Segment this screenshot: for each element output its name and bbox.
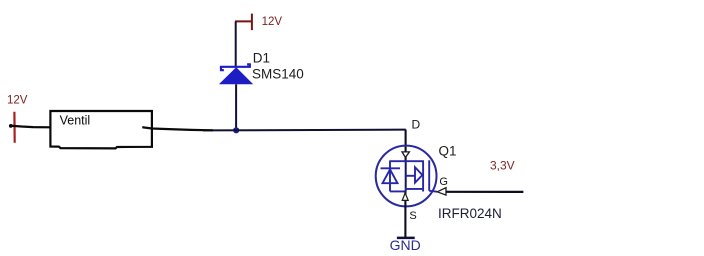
wire left supply to Ventil box (hand-drawn) (10, 126, 51, 128)
junction node dot (233, 127, 239, 133)
wire Ventil box to junction (hand-drawn) (143, 126, 213, 130)
power supply +12V (top) (235, 14, 253, 31)
ground symbol bar (397, 237, 415, 240)
svg-text:G: G (439, 176, 448, 188)
transistor Q1 internal vertical (drain-bulk-source spine) (405, 161, 407, 191)
pin arrow source (open, pointing up) (402, 193, 408, 200)
wire diode anode to junction (235, 84, 237, 130)
svg-text:S: S (409, 210, 416, 222)
component Ventil (box) (50, 111, 151, 148)
diode D1 anode triangle (219, 67, 253, 84)
svg-text:D1: D1 (253, 50, 270, 65)
transistor Q1 internal symbol (381, 160, 438, 191)
power supply 12V bar (left, hand-drawn red) (13, 112, 16, 143)
pin arrow gate (open, pointing left) (437, 188, 446, 195)
svg-text:IRFR024N: IRFR024N (438, 206, 502, 221)
transistor Q1 body circle (376, 146, 437, 207)
wire drain vertical into Q1 (405, 130, 407, 162)
svg-text:12V: 12V (262, 16, 283, 28)
pin arrow drain (open, pointing down) (402, 152, 409, 158)
svg-text:Q1: Q1 (439, 143, 457, 158)
wire gate to 3,3V (446, 191, 523, 193)
svg-text:D: D (412, 118, 421, 132)
diode D1 (Schottky), cathode bar with hooks (220, 64, 251, 70)
svg-text:3,3V: 3,3V (490, 158, 515, 172)
svg-text:SMS140: SMS140 (252, 66, 304, 81)
svg-text:Ventil: Ventil (60, 114, 91, 128)
wire from top supply down to diode cathode (235, 21, 237, 66)
junction blob on left wire (9, 124, 13, 128)
wire junction to drain corner (203, 129, 406, 132)
wire source vertical to ground (404, 191, 406, 237)
svg-text:GND: GND (390, 237, 421, 253)
svg-text:12V: 12V (7, 95, 28, 107)
